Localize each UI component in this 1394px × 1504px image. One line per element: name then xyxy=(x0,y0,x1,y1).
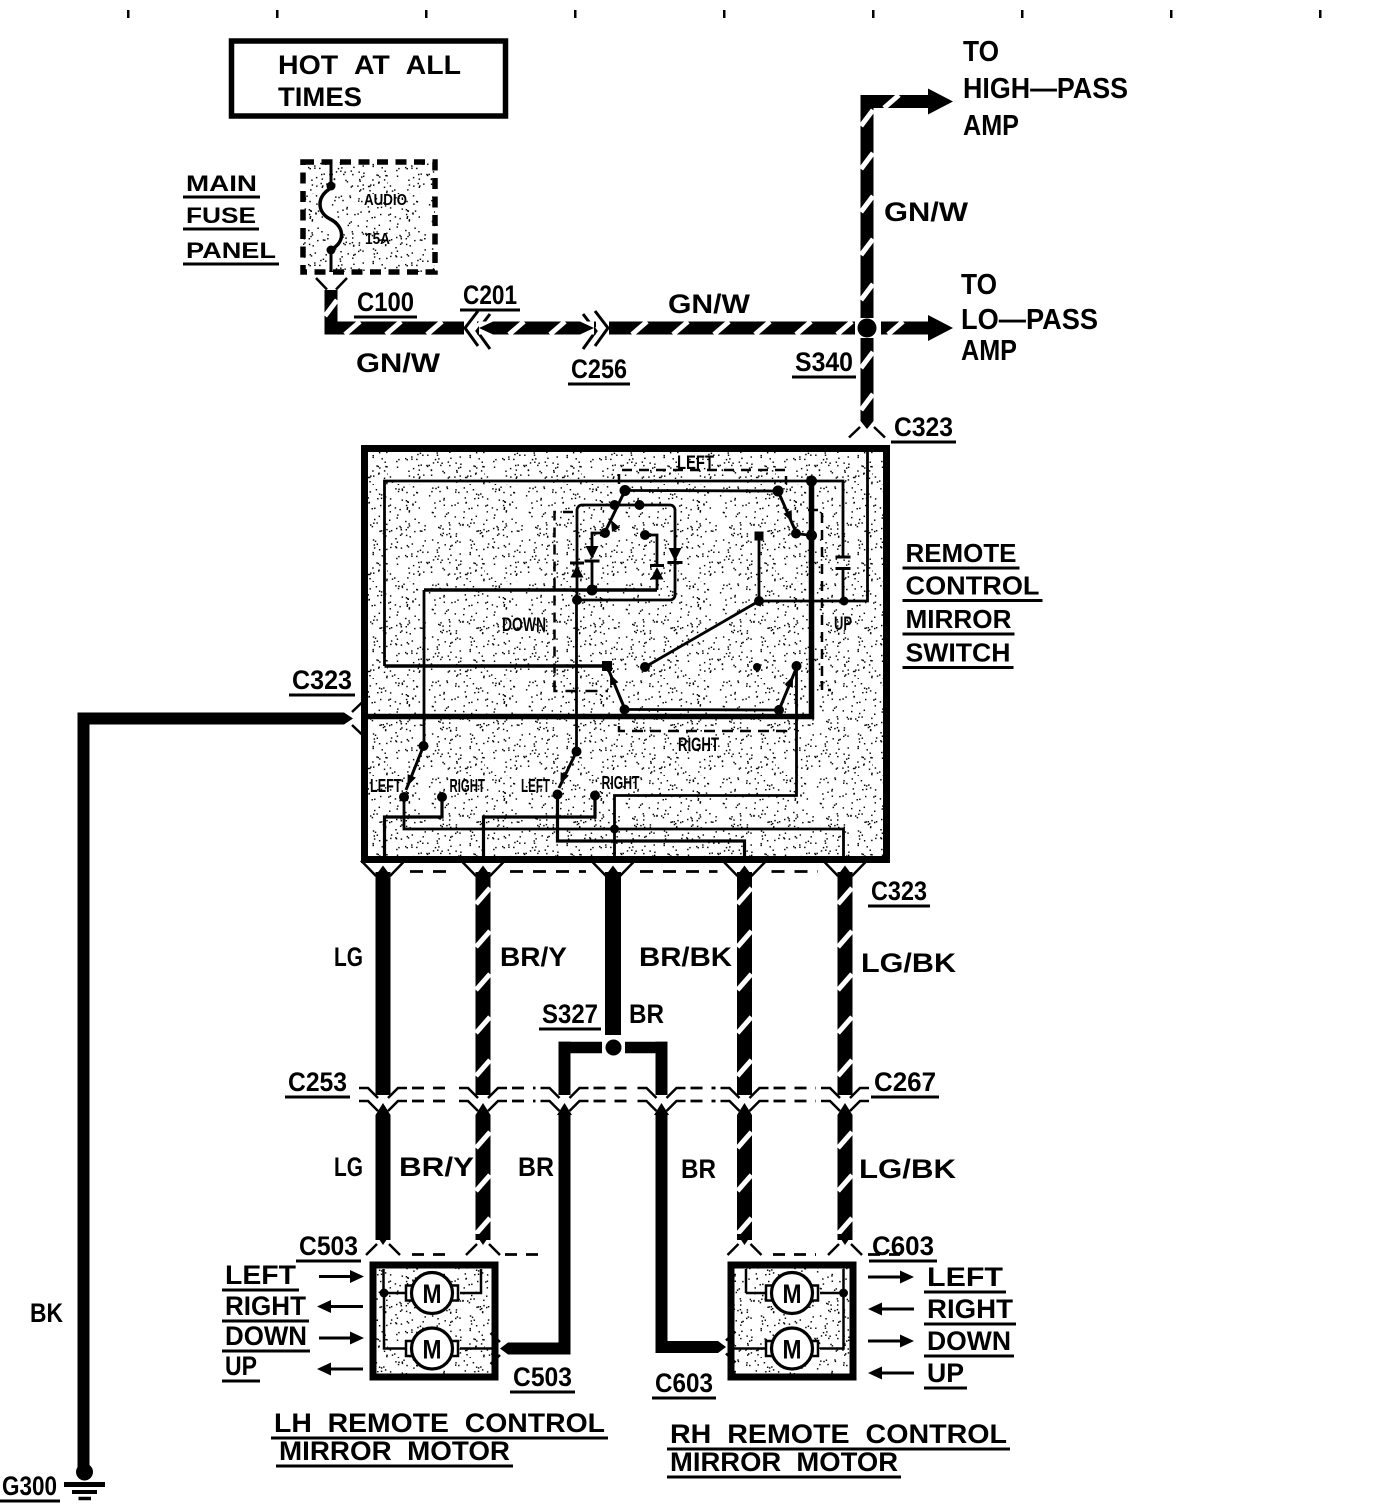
motor M1 RH xyxy=(766,1286,780,1301)
svg-text:BR/Y: BR/Y xyxy=(500,942,567,972)
svg-text:HOT AT ALL: HOT AT ALL xyxy=(278,50,461,80)
connector pin at 483 xyxy=(459,1088,478,1098)
svg-text:BR/BK: BR/BK xyxy=(639,942,733,972)
connector C503 half at motor xyxy=(491,1333,501,1342)
node P14 xyxy=(610,825,619,834)
connector pin at 564.5 xyxy=(541,1088,560,1098)
svg-text:LEFT: LEFT xyxy=(677,453,714,474)
ground G300 xyxy=(76,1464,93,1481)
node P8 xyxy=(806,530,817,541)
blade B3 xyxy=(779,669,796,710)
wire BR down to S327 xyxy=(605,872,621,1035)
svg-text:MIRROR: MIRROR xyxy=(906,604,1012,634)
wire BR to RH motor xyxy=(656,1115,668,1353)
capacitor-style contact xyxy=(836,556,851,559)
svg-text:PANEL: PANEL xyxy=(186,238,276,263)
node P3 xyxy=(587,585,598,596)
motor wiring RH xyxy=(745,1269,748,1293)
fuse element xyxy=(330,162,333,183)
svg-text:RIGHT: RIGHT xyxy=(602,773,640,793)
ruler ticks xyxy=(127,10,130,18)
svg-text:15A: 15A xyxy=(365,231,390,248)
svg-text:AMP: AMP xyxy=(963,110,1019,142)
svg-text:LG/BK: LG/BK xyxy=(859,1154,957,1184)
svg-text:RIGHT: RIGHT xyxy=(450,776,486,796)
svg-text:BK: BK xyxy=(30,1298,63,1328)
svg-text:BR: BR xyxy=(681,1154,716,1184)
wire arm to lo-pass amp xyxy=(881,322,929,335)
bottom switch 2 xyxy=(575,600,578,752)
connector pin at 845 xyxy=(828,1244,839,1255)
connector pin at 661.5 xyxy=(638,1088,657,1098)
connector pin at 845 xyxy=(823,861,838,877)
wire BR/Y xyxy=(476,872,491,1095)
dashed DOWN contact box xyxy=(555,512,574,686)
diode D2 xyxy=(570,562,584,565)
svg-text:C603: C603 xyxy=(872,1231,934,1261)
svg-text:DOWN: DOWN xyxy=(502,615,546,636)
svg-text:RIGHT: RIGHT xyxy=(225,1291,306,1321)
wire BR right arm xyxy=(625,1042,668,1054)
connector pin at 383 xyxy=(361,861,376,877)
diode D1 xyxy=(586,546,599,559)
svg-text:UP: UP xyxy=(225,1351,257,1381)
dashed UP contact box xyxy=(808,510,822,685)
svg-text:M: M xyxy=(783,1279,802,1309)
node P7 xyxy=(773,486,784,497)
wire GN/W from fuse (vertical) xyxy=(325,290,338,335)
connector pin at 613 xyxy=(591,861,606,877)
svg-text:C323: C323 xyxy=(871,876,927,906)
svg-text:C267: C267 xyxy=(874,1067,936,1097)
svg-text:C253: C253 xyxy=(288,1067,347,1097)
svg-text:LH REMOTE CONTROL: LH REMOTE CONTROL xyxy=(274,1408,605,1438)
svg-text:MIRROR MOTOR: MIRROR MOTOR xyxy=(670,1447,898,1477)
svg-text:LG: LG xyxy=(334,1152,363,1182)
wire: mid rail xyxy=(424,588,657,592)
hot-at-all-times box xyxy=(232,41,506,116)
fuse AUDIO 15A box xyxy=(303,162,435,272)
RH remote control mirror motor box xyxy=(731,1265,853,1377)
svg-text:LEFT: LEFT xyxy=(521,776,550,796)
wire GN/W vertical to amps xyxy=(861,95,874,318)
wire BK (ground wire) xyxy=(78,713,90,1469)
svg-text:AMP: AMP xyxy=(961,335,1017,367)
connector pin at 483 xyxy=(466,1244,477,1255)
svg-text:RH REMOTE CONTROL: RH REMOTE CONTROL xyxy=(670,1419,1007,1449)
connector C201 inline break xyxy=(464,319,477,337)
svg-text:BR: BR xyxy=(518,1152,554,1182)
wire BR left arm xyxy=(559,1042,603,1054)
node P15 xyxy=(640,662,650,672)
node P11 xyxy=(620,705,630,715)
wire BR/BK xyxy=(737,872,752,1095)
motor M1 LH xyxy=(406,1286,420,1301)
wire elbow to diode D1 xyxy=(592,533,605,546)
wire: cross rail xyxy=(404,797,844,859)
motor M2 RH xyxy=(766,1341,780,1356)
svg-text:LEFT: LEFT xyxy=(927,1262,1004,1292)
svg-text:RIGHT: RIGHT xyxy=(927,1294,1014,1324)
diode network box xyxy=(577,505,675,600)
wire: right drop loop xyxy=(615,666,797,859)
node on box top xyxy=(610,500,620,510)
node P12 xyxy=(774,705,784,715)
wire LG lower xyxy=(376,1115,391,1240)
svg-text:MIRROR MOTOR: MIRROR MOTOR xyxy=(279,1436,510,1466)
svg-text:LG: LG xyxy=(334,942,363,972)
node P18 + drop xyxy=(755,532,764,541)
connector C603 half at motor xyxy=(726,1332,736,1341)
wire BR/BK lower xyxy=(737,1115,752,1240)
svg-text:RIGHT: RIGHT xyxy=(678,735,719,756)
wire: pivot drop xyxy=(423,590,426,746)
svg-text:S327: S327 xyxy=(542,999,598,1029)
svg-text:AUDIO: AUDIO xyxy=(364,192,407,209)
svg-text:BR/Y: BR/Y xyxy=(399,1152,474,1182)
svg-text:C603: C603 xyxy=(655,1368,713,1398)
svg-text:DOWN: DOWN xyxy=(927,1326,1011,1356)
svg-text:M: M xyxy=(783,1335,802,1365)
svg-text:LEFT: LEFT xyxy=(370,776,402,796)
blade B2 xyxy=(607,666,624,707)
blade B4 xyxy=(778,491,795,530)
connector pin at 845 xyxy=(821,1088,840,1098)
remote control mirror switch box xyxy=(365,449,887,860)
svg-text:C323: C323 xyxy=(292,665,352,695)
svg-text:UP: UP xyxy=(834,614,852,635)
svg-text:LEFT: LEFT xyxy=(225,1260,297,1290)
node P16 xyxy=(754,596,764,606)
motor wiring LH xyxy=(382,1269,385,1291)
connector C100 half xyxy=(316,278,327,290)
svg-text:TO: TO xyxy=(963,36,999,68)
wire GN/W down to C323 xyxy=(861,338,874,421)
svg-text:M: M xyxy=(423,1279,442,1309)
svg-text:DOWN: DOWN xyxy=(225,1321,307,1351)
svg-text:UP: UP xyxy=(927,1358,964,1388)
blade B1 xyxy=(606,491,625,531)
dashed RIGHT contact box xyxy=(619,726,786,731)
svg-text:C256: C256 xyxy=(571,354,627,384)
svg-text:G300: G300 xyxy=(2,1471,57,1501)
node P19 xyxy=(753,663,761,671)
svg-text:C201: C201 xyxy=(463,280,517,310)
connector C323 left half xyxy=(352,702,363,713)
wire: down rail xyxy=(385,664,608,668)
connector C323 half xyxy=(849,427,860,438)
node P9 xyxy=(806,476,817,487)
bottom switch 1 xyxy=(419,741,429,751)
connector pin at 744.5 xyxy=(723,861,738,877)
dashed LEFT contact box xyxy=(619,470,786,484)
LH remote control mirror motor box xyxy=(373,1265,495,1377)
svg-text:TO: TO xyxy=(961,269,997,301)
connector C256 inline break xyxy=(596,319,609,337)
thick switch common rail xyxy=(364,481,812,717)
wire: bottom contact rail xyxy=(625,708,780,711)
node on box top xyxy=(635,500,645,510)
wire GN/W main horizontal xyxy=(325,322,861,335)
svg-text:C503: C503 xyxy=(299,1231,358,1261)
connector pin at 383 xyxy=(366,1244,377,1255)
wire arm to high-pass amp xyxy=(861,95,930,108)
svg-text:C503: C503 xyxy=(513,1362,572,1392)
wire LG/BK xyxy=(838,872,853,1095)
svg-text:LO—PASS: LO—PASS xyxy=(961,304,1098,336)
svg-text:C323: C323 xyxy=(894,412,953,442)
node P10 xyxy=(602,661,612,671)
svg-text:REMOTE: REMOTE xyxy=(906,538,1017,568)
diode D4 xyxy=(669,548,682,561)
svg-text:S340: S340 xyxy=(795,347,853,377)
svg-text:C100: C100 xyxy=(357,287,414,317)
svg-text:BR: BR xyxy=(629,999,664,1029)
svg-text:MAIN: MAIN xyxy=(186,171,257,196)
svg-text:CONTROL: CONTROL xyxy=(906,571,1040,601)
connector pin at 483 xyxy=(461,861,476,877)
svg-text:TIMES: TIMES xyxy=(278,82,362,112)
svg-text:GN/W: GN/W xyxy=(668,289,751,319)
svg-text:FUSE: FUSE xyxy=(186,203,256,228)
wire BR/Y lower xyxy=(476,1115,491,1240)
wire: blade row xyxy=(625,489,778,492)
connector pin at 744.5 xyxy=(728,1244,739,1255)
connector pin at 383 xyxy=(359,1088,378,1098)
svg-text:SWITCH: SWITCH xyxy=(906,638,1011,668)
svg-text:M: M xyxy=(423,1335,442,1365)
connector pin at 744.5 xyxy=(721,1088,740,1098)
node P1 xyxy=(620,485,631,496)
svg-text:HIGH—PASS: HIGH—PASS xyxy=(963,73,1128,105)
svg-text:LG/BK: LG/BK xyxy=(861,948,957,978)
wire: right thin loop xyxy=(759,452,868,601)
diode D3 + branch xyxy=(640,530,650,540)
diagonal wire xyxy=(645,601,759,667)
node P13 xyxy=(792,661,802,671)
splice S327 xyxy=(606,1040,622,1056)
svg-text:GN/W: GN/W xyxy=(356,348,441,378)
wire LG xyxy=(376,872,391,1095)
wire BR to LH motor xyxy=(559,1115,571,1355)
wire LG/BK lower xyxy=(838,1115,853,1240)
node P6 xyxy=(572,595,582,605)
svg-text:GN/W: GN/W xyxy=(884,197,969,227)
motor M2 LH xyxy=(406,1341,420,1356)
wire: top rail xyxy=(385,481,844,666)
splice S340 xyxy=(855,322,879,335)
node P17 xyxy=(840,597,849,606)
